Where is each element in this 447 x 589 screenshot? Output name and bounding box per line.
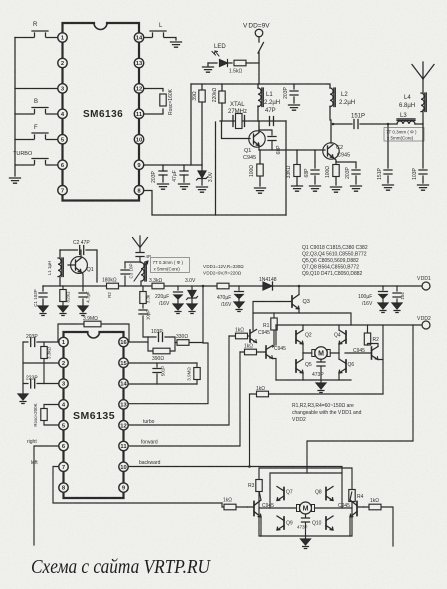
ground (left bus rx) — [18, 394, 28, 404]
ground (203P em) — [351, 186, 362, 191]
transistor C945 (drive R) — [338, 492, 364, 536]
resistor 100ohm (C2 emitter) — [325, 158, 339, 186]
wire pin6 right — [27, 439, 59, 545]
resistor 39ohm — [192, 84, 205, 165]
pin 8 U2 — [59, 483, 68, 492]
pin 7 U1 — [58, 186, 67, 195]
wire left bus rx — [22, 342, 24, 393]
transistor C945 (steer R) — [353, 347, 378, 360]
transistor Q8 — [315, 487, 333, 501]
diode 1N4148 — [259, 277, 277, 290]
transistor C945 (drive L) — [248, 492, 275, 536]
capacitor 473P (M1) — [312, 359, 325, 380]
inductor L4 6.8uH — [399, 78, 426, 124]
inductor L2 2.2uH — [328, 84, 355, 143]
inductor L1 2.2uH — [258, 84, 280, 131]
resistor 1k (bridge1 bottom) — [250, 386, 384, 397]
ground (220uF) — [173, 304, 183, 314]
pin 14 U2 — [119, 379, 128, 388]
capacitor 100uF/16V (vdd1) — [358, 286, 388, 307]
wire xtal line — [220, 120, 286, 122]
ground (100ohm) — [255, 188, 266, 193]
wire 9V rail — [191, 83, 328, 85]
capacitor 203P (pin1) — [23, 334, 59, 347]
ground (zener rx) — [187, 304, 197, 314]
resistor R3 — [248, 480, 262, 492]
resistor 3.9M (pin1-pin16 loop) — [58, 316, 129, 342]
power terminal VDD=9V — [243, 23, 270, 37]
ground (C1) — [38, 306, 48, 316]
resistor 33K — [286, 150, 300, 185]
ground (100uF) — [378, 303, 388, 313]
IC U1 SM6136 body — [63, 23, 140, 201]
capacitor 473P (M2) — [297, 514, 310, 536]
capacitor 151P (coupling) — [333, 114, 388, 129]
capacitor 501P — [153, 363, 166, 384]
transistor C945 (lvl1) — [250, 330, 270, 343]
wire inner-left drop — [275, 325, 277, 345]
pin 11 U1 — [134, 109, 143, 118]
wire rail left drop to pin9 line — [190, 84, 192, 165]
junction dot — [387, 123, 390, 126]
pin 12 U2 — [119, 421, 128, 430]
antenna (tx) — [412, 62, 434, 79]
transistor C945 (lvl2) — [266, 346, 286, 359]
pin 4 U1 — [58, 109, 67, 118]
pin 6 U2 — [59, 441, 68, 450]
coil 7T (rx tank) — [134, 261, 148, 286]
capacitor C3 10P — [121, 262, 134, 286]
pin circles U1 — [58, 33, 144, 195]
capacitor 203P (C2 emitter) — [336, 162, 360, 184]
pin 10 U2 — [119, 462, 128, 471]
transistor Q7 — [277, 487, 293, 501]
capacitor 68P (fb) — [268, 137, 282, 155]
transistor Q6 — [339, 359, 354, 373]
capacitor 68P (C2 base) — [304, 150, 319, 184]
terminal VDD1 — [417, 276, 431, 290]
wire base drop — [222, 121, 251, 139]
label 7T core (rx) — [151, 258, 190, 273]
transistor Q2 C945 (tx out) — [323, 143, 350, 159]
pin 11 U2 — [119, 441, 128, 450]
resistor 1k (Q_in2) — [240, 344, 266, 355]
transistor Q2 — [296, 330, 312, 344]
capacitor 4.7uF — [79, 286, 91, 305]
inductor L1 rx 1uH — [47, 250, 63, 286]
resistor 1k (drive L) — [222, 498, 248, 510]
ground (bridge1) — [316, 380, 326, 393]
capacitor 103P (ant) — [412, 124, 427, 183]
RC loop 103P / 390 (pin16) — [148, 329, 175, 362]
wire pin8 to shield box bottom — [144, 191, 286, 216]
capacitor 4P (ant rx) — [136, 253, 151, 263]
wire vdd2 drop to bridge2 — [307, 325, 413, 473]
capacitor 47P (tx) — [265, 108, 276, 126]
wire pin15 line — [128, 362, 197, 364]
transistor Q9 — [277, 516, 293, 530]
transistor Q10 — [312, 516, 333, 530]
bridge2 outer box — [259, 468, 352, 536]
wire pin12 turbo — [128, 336, 229, 425]
resistor 220k — [212, 84, 225, 121]
wire vdd2 long line — [276, 324, 422, 326]
zener 3.0V (pin9) — [197, 165, 215, 185]
wire emitter line to C2 base — [259, 149, 325, 151]
switch (power) — [258, 37, 264, 84]
zener 3.0V (rx) — [187, 286, 198, 303]
antenna (rx) — [133, 236, 148, 252]
switch B — [15, 99, 58, 114]
wire Q5 col/em — [302, 353, 304, 380]
crystal XTAL 27MHz — [228, 102, 247, 129]
pin 3 U2 — [59, 379, 68, 388]
resistor 1.5k — [229, 60, 259, 74]
ground (100ohm C2) — [331, 187, 342, 192]
wire 330 to rail — [202, 286, 204, 343]
resistor Rosc=200K (pins4-5) — [33, 403, 59, 426]
pin 2 U2 — [59, 358, 68, 367]
resistor 3.9M (pin15-14) — [187, 363, 201, 384]
wire pin3 to bus — [15, 88, 58, 90]
motor M2 — [259, 502, 352, 514]
wire pin14 line — [128, 383, 197, 385]
resistor R1 — [263, 313, 277, 347]
resistor R (supply, on rail) — [217, 283, 229, 289]
resistor R4 — [349, 490, 364, 502]
ground (left bus) — [10, 178, 21, 183]
capacitor 203P (tx rail) — [283, 84, 298, 103]
wire collector node junction — [332, 123, 335, 126]
wire right vertical — [382, 325, 384, 394]
wire pin2 — [23, 362, 59, 364]
wire pin16 line — [128, 341, 148, 343]
pin 5 U1 — [58, 135, 67, 144]
pin 16 U2 — [119, 337, 128, 346]
ground (bridge2) — [301, 536, 311, 549]
wire lvl2 emitter drop — [273, 359, 277, 381]
pin 15 U2 — [119, 358, 128, 367]
pin 6 U1 — [58, 160, 67, 169]
switch TURBO — [13, 151, 58, 165]
pin 3 U1 — [58, 84, 67, 93]
wire pin7 left — [31, 460, 222, 503]
ground (zener) — [197, 187, 208, 192]
LED D1 — [208, 44, 232, 67]
ground (820) — [58, 306, 68, 316]
IC U2 SM6135 body — [64, 332, 124, 498]
pin 13 U2 — [119, 400, 128, 409]
shield box — [216, 121, 287, 215]
resistor 1k (Q_in1) — [229, 328, 250, 339]
ground (151P shunt) — [383, 185, 394, 190]
resistor 330 (pin16 chain) — [175, 334, 203, 346]
wire Q4 collector/emitter — [338, 325, 340, 353]
ground (203P rail) — [289, 105, 300, 110]
motor M1 — [303, 347, 339, 359]
wire left bus — [14, 38, 16, 177]
ground (33K) — [292, 186, 303, 191]
terminal VDD2 — [417, 316, 431, 329]
wire 1k line riser — [249, 394, 251, 467]
pin 8 U1 — [134, 186, 143, 195]
pin 1 U2 — [59, 337, 68, 346]
label transistor list — [302, 245, 368, 277]
transistor Q5 — [296, 359, 312, 373]
resistor R2 — [364, 325, 379, 345]
pin 12 U1 — [134, 84, 143, 93]
switch F — [15, 125, 58, 140]
ground (LED) — [203, 63, 214, 72]
ground (103P ant) — [418, 185, 429, 190]
wire base/emitter links — [345, 353, 383, 360]
wire collector node to 68P — [259, 130, 272, 135]
resistor 3.3k (rail) — [149, 278, 164, 289]
transistor Q4 — [334, 330, 346, 344]
wire Q2 collector/emitter — [302, 325, 304, 353]
wire pin10 backward — [128, 460, 342, 473]
label R note — [292, 403, 362, 423]
pin 13 U1 — [134, 58, 143, 67]
ground (switch L) — [171, 42, 182, 47]
capacitor 223P (pin3) — [23, 376, 59, 389]
pin 4 U2 — [59, 400, 68, 409]
capacitor 47uF (pin9) — [172, 165, 188, 182]
ground (470uF) — [234, 302, 244, 312]
capacitor C1 103P — [33, 286, 47, 307]
inductor L3 — [388, 113, 423, 124]
ground (203P) — [158, 184, 169, 189]
transistor Q3 — [292, 285, 310, 313]
switch R — [15, 22, 58, 38]
ground (4.7uF) — [78, 306, 88, 316]
wire pin11 forward — [128, 352, 240, 446]
wire collector to R2 — [368, 344, 379, 347]
wire main 3V rail — [43, 285, 422, 287]
resistor 820 — [60, 286, 71, 305]
wire Q6 col/em — [338, 353, 340, 380]
wire pin13 line — [128, 343, 208, 404]
ground (68P) — [310, 186, 321, 191]
resistor R2 180k (on rail) — [102, 278, 119, 298]
resistor Rosc=160K (pins 12-11) — [144, 88, 174, 115]
ground (104) — [392, 303, 402, 313]
capacitor 151P (shunt) — [377, 124, 392, 183]
wire top bridge line — [253, 313, 351, 325]
transistor Q1 (rx) — [68, 250, 94, 286]
capacitor 203P (pin9) — [151, 165, 167, 183]
pin 9 U1 — [134, 160, 143, 169]
capacitor 470uF/16V — [217, 286, 244, 308]
transistor Q1 C945 (tx osc) — [243, 126, 265, 161]
pin 10 U1 — [134, 135, 143, 144]
wire bridge2 inner top — [270, 473, 342, 508]
capacitor C2 47P (rx fb) — [60, 240, 97, 282]
wire bottom bridge line — [276, 379, 351, 381]
pin 9 U2 — [119, 483, 128, 492]
pin 1 U1 — [58, 33, 67, 42]
pin 2 U1 — [58, 58, 67, 67]
wire pin9 line — [144, 164, 202, 166]
wire Q3 base line — [253, 302, 292, 331]
pin 7 U2 — [59, 462, 68, 471]
ground (47uF) — [179, 184, 190, 189]
resistor 1k (drive R) — [364, 498, 394, 546]
switch L (pin14) — [144, 23, 176, 40]
pin 5 U2 — [59, 421, 68, 430]
label 7T core (tx) — [384, 128, 424, 142]
resistor 100ohm (Q1 emitter) — [249, 150, 263, 186]
pin 14 U1 — [134, 33, 143, 42]
resistor 3.3k (pin1-pin3) — [41, 342, 52, 384]
capacitor 220uF/16V — [155, 286, 183, 307]
wire top junction — [125, 261, 141, 263]
capacitor 104 — [393, 286, 405, 302]
capacitor chain below rail (10uF branch) — [139, 286, 151, 337]
